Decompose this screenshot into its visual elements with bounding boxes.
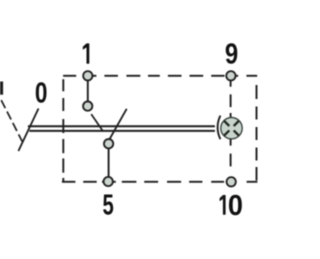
center switch lever (109, 109, 127, 141)
dashed alternate-position line (1, 100, 23, 143)
left stop bar (0, 82, 3, 95)
terminal 1 (83, 71, 92, 80)
svg-text:0: 0 (228, 190, 243, 222)
contact bridge from terminal 2 (91, 114, 103, 131)
dashed wire terminal9-lamp (230, 81, 232, 119)
terminal 5 (104, 177, 113, 186)
dashed frame right (256, 85, 258, 181)
svg-text:9: 9 (225, 38, 238, 70)
dashed wire lamp-terminal10 (230, 139, 232, 166)
dashed frame bottom (62, 181, 258, 183)
terminal 10 (227, 177, 236, 186)
svg-text:5: 5 (103, 189, 114, 221)
terminal 9 (226, 71, 235, 80)
terminal 2 (83, 101, 92, 110)
dashed frame left (62, 79, 64, 182)
label 10 (220, 195, 226, 215)
actuator shaft double line (28, 126, 215, 131)
wire terminal1-terminal2 (87, 78, 89, 104)
wire terminal3-terminal5 (108, 145, 110, 180)
left switch lever (18, 109, 38, 152)
label 1 (83, 43, 90, 63)
terminal 3 (104, 139, 113, 148)
svg-text:0: 0 (35, 78, 48, 110)
dashed frame top (63, 75, 257, 77)
lamp holder arc (218, 116, 221, 140)
lamp L1 (221, 118, 242, 139)
